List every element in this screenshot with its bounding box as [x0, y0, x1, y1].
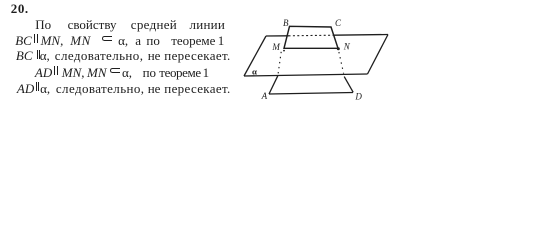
plane alpha right edge: [368, 35, 389, 75]
text line 2: BC || MN, MN c a, а по теореме 1: [0, 34, 550, 48]
segment A D: [269, 93, 353, 95]
plane alpha top edge left solid part: [266, 35, 289, 37]
svg-text:C: C: [335, 18, 342, 28]
svg-text:M: M: [271, 42, 280, 52]
text line 5: AD||α, следовательно, не пересекает.: [0, 82, 550, 96]
plane alpha bottom edge: [244, 74, 368, 76]
hidden line M to plane edge (dotted): [278, 52, 281, 75]
svg-text:D: D: [354, 91, 362, 101]
text line 4: AD || MN, MN c a, по теореме 1: [0, 66, 550, 80]
problem number 20.: [0, 2, 550, 16]
plane alpha left edge: [244, 36, 266, 76]
text line 1: По свойству средней линии: [0, 18, 550, 32]
plane alpha top edge hidden dashed part: [289, 34, 334, 37]
svg-text:N: N: [343, 42, 351, 52]
plane alpha top edge right solid part: [334, 34, 389, 37]
visible line plane edge to A: [269, 76, 278, 94]
svg-text:B: B: [283, 18, 289, 28]
point M dot: [283, 50, 285, 52]
visible line plane edge to D: [344, 77, 353, 93]
svg-text:A: A: [261, 91, 268, 101]
trapezoid BCNM outline: [284, 26, 338, 48]
hidden line N to plane edge (dotted): [339, 52, 344, 74]
svg-text:α: α: [252, 67, 257, 77]
text line 3: BC ||α, следовательно, не пересекает.: [0, 49, 550, 63]
point N dot: [337, 47, 340, 50]
